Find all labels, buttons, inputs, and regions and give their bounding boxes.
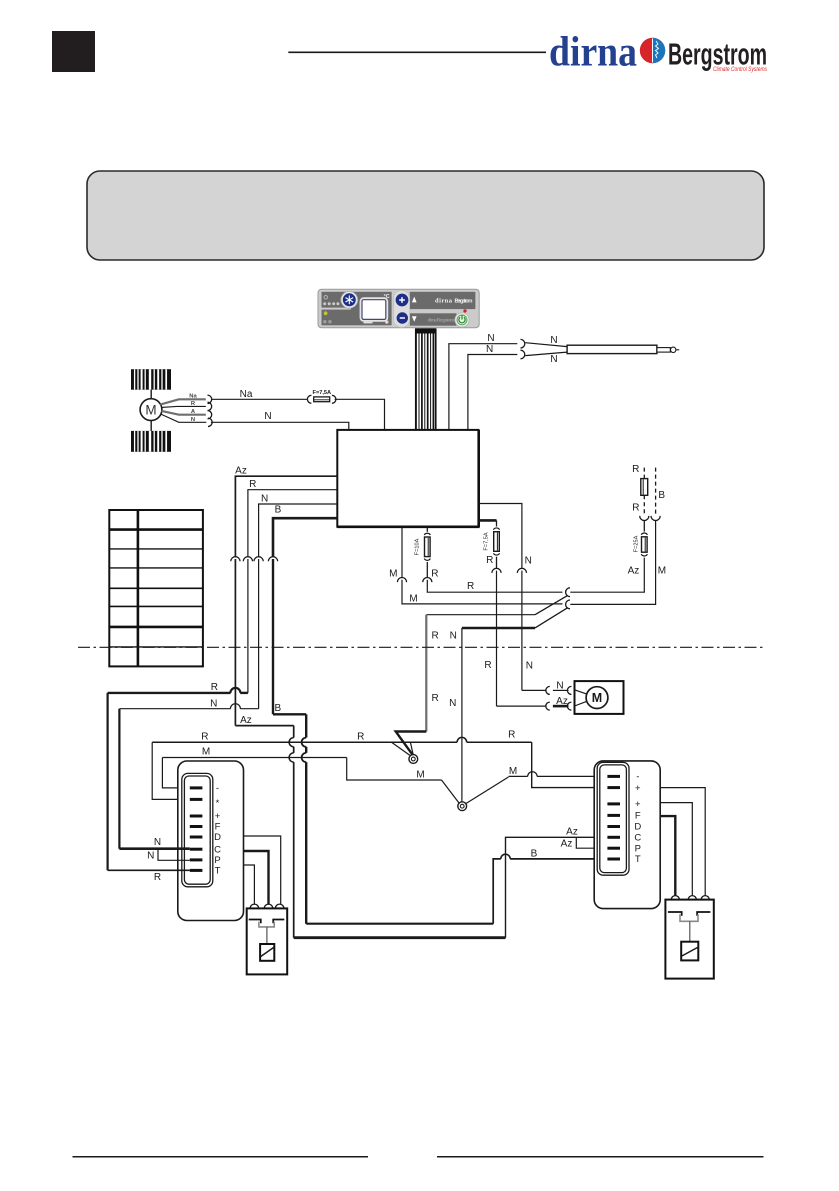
terminal E1 <box>409 755 418 764</box>
svg-text:C: C <box>634 833 641 844</box>
relay K2 contact <box>668 912 711 916</box>
svg-text:Az: Az <box>628 566 640 577</box>
svg-text:-: - <box>216 783 219 794</box>
svg-text:N: N <box>191 417 195 423</box>
wire R distribution <box>152 741 457 743</box>
pin bar X2 <box>607 775 620 778</box>
diagonal to R wire <box>535 595 568 614</box>
wire B routing bottom <box>306 923 493 925</box>
wire N to motor M2 <box>522 689 547 691</box>
svg-text:F=7,5A: F=7,5A <box>484 532 490 550</box>
wire Az routing bottom <box>294 936 506 939</box>
motor M2 box <box>575 681 624 714</box>
svg-text:dirna: dirna <box>549 30 637 76</box>
motor M2 leads <box>575 690 588 694</box>
svg-text:N: N <box>526 661 533 672</box>
pin bar X1 <box>190 825 203 828</box>
sensor leads <box>525 343 567 347</box>
svg-text:P: P <box>635 843 641 854</box>
wire R down <box>247 559 249 693</box>
connector N <box>254 557 263 562</box>
wire Na fuse to unit <box>335 399 385 430</box>
svg-text:N: N <box>525 555 532 566</box>
relay K1 terminals <box>250 904 259 908</box>
wire Na to fuse <box>211 398 308 400</box>
svg-text:B: B <box>275 504 282 515</box>
relay K1 box <box>247 908 288 974</box>
connector N right <box>517 568 526 573</box>
svg-text:B: B <box>658 490 665 501</box>
relay K2 terminals <box>671 896 679 900</box>
svg-text:D: D <box>214 832 221 843</box>
svg-text:R: R <box>211 682 218 693</box>
connectors motor leads <box>208 395 212 403</box>
svg-text:R: R <box>432 693 439 704</box>
connectors optional <box>640 516 649 521</box>
pin bar X1 <box>190 815 203 818</box>
svg-text:N: N <box>450 630 457 641</box>
wire N motor lead <box>160 414 206 422</box>
fuse F4 25A <box>643 520 645 531</box>
relay K1 coil <box>260 944 274 961</box>
fuse F1 7.5A <box>307 395 311 403</box>
svg-text:M: M <box>202 747 210 758</box>
wire B to routing <box>273 713 306 715</box>
svg-text:F=7,5A: F=7,5A <box>313 390 332 396</box>
svg-text:T: T <box>635 854 641 865</box>
svg-text:R: R <box>432 630 439 641</box>
connector B <box>268 557 277 562</box>
wire B routing vertical <box>305 714 307 737</box>
svg-text:N: N <box>556 680 563 691</box>
wire Az to routing <box>235 725 293 727</box>
header black square <box>52 31 95 72</box>
svg-text:T: T <box>215 866 221 877</box>
wire N motor to unit <box>211 422 349 430</box>
R vertical grey <box>425 615 427 732</box>
terminal E2 <box>458 802 467 811</box>
svg-text:F=10A: F=10A <box>414 538 420 555</box>
pin bar X2 <box>607 847 620 850</box>
svg-text:Az: Az <box>561 839 573 850</box>
pin bar X2 <box>607 825 620 828</box>
N vertical <box>461 628 463 802</box>
logo globe icon <box>640 38 665 63</box>
svg-text:R: R <box>632 502 639 513</box>
svg-text:N: N <box>261 493 268 504</box>
wire Az to motor M2 <box>497 705 547 707</box>
svg-text:+: + <box>635 799 641 810</box>
svg-text:+: + <box>215 811 221 822</box>
wire M to pin minus <box>162 758 189 788</box>
junction connector R/Az <box>566 588 570 597</box>
dashed wire B optional <box>655 468 657 515</box>
relay K1 contact <box>249 920 285 924</box>
wire M distribution <box>162 757 346 759</box>
wire N from unit <box>259 504 338 557</box>
pin bar X1 <box>190 848 203 851</box>
wire R to pin T <box>106 693 108 870</box>
junction connector M/M <box>566 600 570 609</box>
svg-text:F=25A: F=25A <box>633 535 639 552</box>
svg-text:F: F <box>215 822 221 833</box>
connector R bottom <box>423 578 432 583</box>
svg-text:R: R <box>467 581 474 592</box>
connector R <box>243 557 252 562</box>
wire R unit right stub <box>479 519 497 522</box>
wire M to junction <box>570 520 655 604</box>
wire Az from unit <box>235 476 337 557</box>
svg-text:M: M <box>145 402 156 417</box>
svg-text:N: N <box>154 837 161 848</box>
svg-text:R: R <box>249 479 256 490</box>
connector block X2 <box>594 761 660 909</box>
motor shaft <box>150 390 152 399</box>
X2 wires to relay K2 <box>660 788 705 896</box>
connector legend table <box>109 510 203 666</box>
connector Az <box>231 557 240 562</box>
wire N sensor 1 <box>449 344 517 430</box>
svg-text:M: M <box>389 568 397 579</box>
pin bar X2 <box>607 836 620 839</box>
svg-text:Bergstrom: Bergstrom <box>455 298 473 304</box>
wire to R vertical <box>426 614 535 616</box>
svg-text:N: N <box>550 354 557 365</box>
svg-text:R: R <box>508 730 515 741</box>
wire N unit right <box>479 504 522 569</box>
wire Az branch to P <box>576 837 607 848</box>
connector M bottom <box>397 577 406 582</box>
svg-text:N: N <box>550 335 557 346</box>
wire R from unit <box>248 490 337 557</box>
svg-text:D: D <box>634 822 641 833</box>
fan rotor top <box>131 369 171 390</box>
connector sensor 1 <box>521 339 525 348</box>
svg-text:✺: ✺ <box>384 319 389 326</box>
wire R to pin asterisk <box>152 742 190 799</box>
svg-text:R: R <box>484 660 491 671</box>
svg-text:F: F <box>635 811 641 822</box>
svg-text:+: + <box>635 783 641 794</box>
pin bar X2 <box>607 786 620 789</box>
wire Az routing vertical <box>293 726 295 738</box>
dashed wire R optional <box>643 468 645 479</box>
svg-text:P: P <box>214 855 220 866</box>
svg-text:M: M <box>409 594 417 605</box>
svg-text:R: R <box>486 555 493 566</box>
svg-text:dirna: dirna <box>435 297 453 304</box>
M diagonal to terminal <box>442 780 460 803</box>
wire N branch to pin P <box>158 849 190 861</box>
svg-text:Az: Az <box>240 715 252 726</box>
wire N sensor 2 <box>468 355 517 430</box>
fan rotor bottom <box>131 431 171 452</box>
wire R motor lead <box>162 406 206 407</box>
svg-text:Na: Na <box>240 389 253 400</box>
wire N down <box>258 559 260 709</box>
svg-text:R: R <box>201 732 208 743</box>
wire R to right block <box>532 742 608 787</box>
note box <box>87 171 764 260</box>
pin bar X1 <box>190 869 203 872</box>
X1 wires to relay K1 <box>244 836 281 905</box>
relay K2 box <box>665 900 713 979</box>
relay K1 stem <box>266 927 268 944</box>
diagonal to N wire <box>535 608 568 628</box>
svg-text:Az: Az <box>566 827 578 838</box>
svg-text:Na: Na <box>189 394 197 400</box>
svg-text:Az: Az <box>556 696 568 707</box>
pin bar X2 <box>607 858 620 861</box>
svg-text:N: N <box>264 411 271 422</box>
inline fuse rect optional <box>641 479 648 496</box>
pin bar X1 <box>190 786 203 789</box>
ribbon cable <box>415 328 436 430</box>
R arrow thick <box>396 732 427 755</box>
fuse F2 10A <box>424 533 430 535</box>
svg-text:-: - <box>636 772 639 783</box>
relay K2 stem <box>689 921 691 941</box>
svg-text:N: N <box>486 344 493 355</box>
control unit A1 <box>337 430 478 527</box>
temperature probe B1 <box>567 345 657 353</box>
connector R right <box>492 568 501 573</box>
motor M1 <box>140 399 162 421</box>
pin bar X2 <box>607 802 620 805</box>
svg-text:R: R <box>357 732 364 743</box>
control panel U1 <box>318 289 479 328</box>
connector sensor 2 <box>521 350 525 359</box>
svg-text:M: M <box>509 766 517 777</box>
M diagonal from terminal <box>466 777 509 804</box>
svg-text:°C: °C <box>384 294 390 300</box>
wire R thick horizontal <box>108 692 231 694</box>
svg-text:N: N <box>147 851 154 862</box>
svg-text:Az: Az <box>235 465 247 476</box>
wire B down <box>272 559 274 714</box>
wire R with fuse F2 from unit bottom <box>426 527 428 532</box>
svg-text:R: R <box>632 464 639 475</box>
svg-text:dirna Bergstrom: dirna Bergstrom <box>428 318 456 324</box>
pin bar X1 <box>190 836 203 839</box>
pin bar X2 <box>607 814 620 817</box>
svg-text:C: C <box>214 844 221 855</box>
relay K2 coil <box>681 942 698 961</box>
wire B up to block <box>493 859 501 924</box>
svg-text:R: R <box>431 568 438 579</box>
svg-text:N: N <box>449 698 456 709</box>
connector block X1 <box>178 761 244 921</box>
R wedge to terminal <box>392 742 412 756</box>
wire M to right block <box>509 775 528 777</box>
footer rule right <box>437 1156 764 1158</box>
svg-text:B: B <box>274 703 281 714</box>
wire A motor lead <box>162 411 206 415</box>
wire Az down <box>234 559 236 726</box>
header rule <box>288 51 546 53</box>
svg-text:*: * <box>216 798 220 809</box>
motor M2 <box>586 687 608 709</box>
fuse F3 7.5A <box>493 528 499 530</box>
svg-text:M: M <box>658 566 666 577</box>
pin bar X1 <box>190 798 203 801</box>
svg-text:R: R <box>154 872 161 883</box>
wire N horizontal <box>119 708 230 710</box>
footer rule left <box>73 1156 369 1158</box>
svg-text:M: M <box>416 770 424 781</box>
svg-text:Climate Control Systems: Climate Control Systems <box>713 66 768 73</box>
svg-text:B: B <box>531 849 538 860</box>
wire M from unit bottom <box>401 527 403 578</box>
wire Az up to block <box>506 837 608 937</box>
svg-text:N: N <box>210 698 217 709</box>
pin bar X1 <box>190 858 203 861</box>
wire N thick to pin C <box>118 709 120 849</box>
wire B from unit <box>273 518 337 557</box>
svg-text:N: N <box>487 333 494 344</box>
wire Az to junction <box>570 558 644 593</box>
chassis separator line <box>78 646 766 648</box>
svg-text:M: M <box>592 691 602 705</box>
wire Na motor lead <box>160 399 206 404</box>
wire to N vertical <box>462 627 535 629</box>
